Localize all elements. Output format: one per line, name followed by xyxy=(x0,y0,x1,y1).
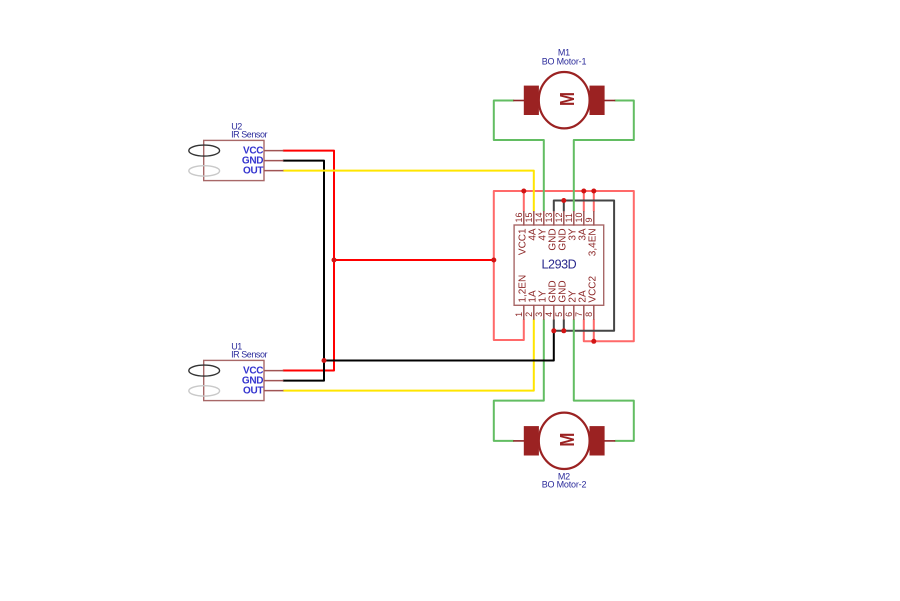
junction dots xyxy=(322,189,597,364)
svg-text:5: 5 xyxy=(554,312,564,317)
pin numbers 16..9 top xyxy=(514,212,594,222)
motor M1 labels xyxy=(542,48,587,67)
L293D pin stubs top xyxy=(524,211,594,226)
svg-text:OUT: OUT xyxy=(243,386,263,397)
wire M1 right green to pin 11 xyxy=(574,101,634,212)
svg-text:12: 12 xyxy=(554,212,564,222)
svg-text:L293D: L293D xyxy=(541,257,576,271)
wire GND net black from sensors xyxy=(283,161,553,381)
wire U1 OUT yellow to pin 2 xyxy=(283,320,533,391)
svg-text:15: 15 xyxy=(524,212,534,222)
svg-text:9: 9 xyxy=(584,217,594,222)
motor M1 xyxy=(513,72,615,128)
IC U1 L293D body xyxy=(514,225,604,305)
svg-text:4: 4 xyxy=(544,312,554,317)
svg-text:16: 16 xyxy=(514,212,524,222)
svg-text:13: 13 xyxy=(544,212,554,222)
IR sensor U2 pin names xyxy=(242,146,264,177)
IR sensor U2 pin stubs xyxy=(264,151,283,171)
IR sensor U2 body xyxy=(204,140,264,180)
svg-text:14: 14 xyxy=(534,212,544,222)
wire M2 right green to pin 6 xyxy=(574,320,634,441)
IR sensor U1 LED ellipse xyxy=(189,365,220,376)
wire M2 left green to pin 3 xyxy=(494,320,544,441)
svg-text:6: 6 xyxy=(564,312,574,317)
wire VCC net bright red from sensors xyxy=(283,151,493,371)
motor M2 xyxy=(513,413,615,469)
svg-text:M: M xyxy=(557,92,579,106)
wire VCC net salmon loop around U1 (L293D) xyxy=(494,191,634,341)
svg-text:IR Sensor: IR Sensor xyxy=(231,350,267,360)
IR sensor U1 pin names xyxy=(242,366,264,397)
L293D pin stubs bottom xyxy=(524,305,594,320)
IR sensor U1 body xyxy=(204,360,264,400)
IR sensor U1 photodiode ellipse xyxy=(189,386,220,396)
svg-text:OUT: OUT xyxy=(243,166,263,177)
svg-text:3: 3 xyxy=(534,312,544,317)
IR sensor U2 photodiode ellipse xyxy=(189,166,220,176)
svg-text:IR Sensor: IR Sensor xyxy=(231,130,267,140)
motor M2 labels xyxy=(542,471,587,489)
svg-text:2: 2 xyxy=(524,312,534,317)
IR sensor U1 pin stubs xyxy=(264,371,283,391)
svg-text:VCC2: VCC2 xyxy=(587,275,598,302)
IR sensor U1 title labels xyxy=(231,342,267,360)
IR sensor U2 title labels xyxy=(231,122,267,140)
wire U2 OUT yellow to pin 15 xyxy=(283,171,533,211)
wire GND net gray bus to pins 4,5,12,13 xyxy=(554,201,614,331)
pin numbers 1..8 bottom xyxy=(514,312,594,317)
IR sensor U2 LED ellipse xyxy=(189,145,220,156)
pin labels top row VCC1 4A 4Y GND GND 3Y 3A 3,4EN xyxy=(517,228,598,256)
svg-text:7: 7 xyxy=(574,312,584,317)
svg-text:M: M xyxy=(557,433,579,447)
svg-text:11: 11 xyxy=(564,213,574,222)
pin labels bottom row 1,2EN 1A 1Y GND GND 2Y 2A VCC2 xyxy=(517,275,598,303)
wire M1 left green to pin 14 xyxy=(494,101,544,212)
svg-text:10: 10 xyxy=(574,212,584,222)
svg-text:1: 1 xyxy=(514,312,524,317)
svg-text:8: 8 xyxy=(584,312,594,317)
svg-text:3,4EN: 3,4EN xyxy=(587,228,598,256)
svg-text:BO Motor-1: BO Motor-1 xyxy=(542,56,587,66)
svg-text:BO Motor-2: BO Motor-2 xyxy=(542,479,587,489)
